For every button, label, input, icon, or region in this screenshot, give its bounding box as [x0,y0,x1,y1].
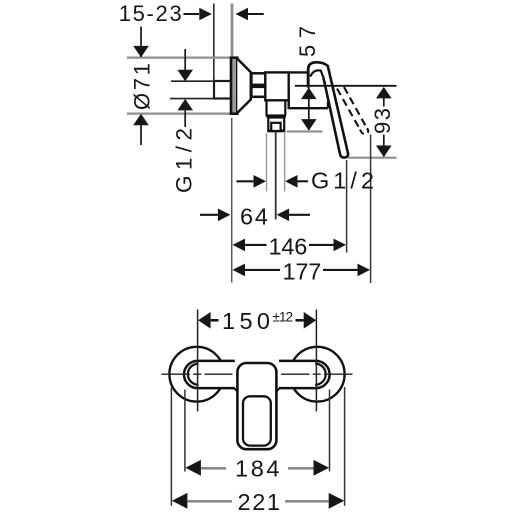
extension line outlet left [266,133,268,192]
arrow left (177) [233,264,246,277]
dimension 150 tail left [211,319,219,322]
arrow left (150) [198,312,211,329]
arrow left (15-23) [236,8,249,21]
arrow right (177) [358,264,371,277]
arrow up (O71 bottom) [133,114,149,126]
dimension 184 line left [201,467,226,470]
right centerline horizontal [281,373,353,375]
wire tail right (G1/2) [298,180,309,182]
svg-text:±12: ±12 [273,310,294,325]
extension line from solid handle tip [346,160,348,253]
dimension 93 line upper [383,88,385,107]
arrow down (G1/2 left) [177,70,193,82]
arrow left (184) [185,460,201,476]
wire tail of left arrow [248,13,264,15]
handle open position dashed edge 2 [344,87,367,128]
wall face line (gray) [231,4,234,58]
extension line from dashed handle tip [370,135,372,284]
arrow up (93) [376,87,392,99]
dimension 221 line right [285,500,329,503]
outlet section left [265,100,267,115]
arrow left (G1/2) [285,175,298,188]
dimension 150 tail right [296,319,304,322]
arrow right (64) [218,209,231,222]
svg-text:Ø71: Ø71 [130,63,155,110]
housing right edge [327,102,329,109]
lever handle outline [308,62,348,157]
bar inner arc left [188,364,199,385]
handle open position dashed tip [360,128,368,134]
outlet bore [271,123,280,131]
left centerline vertical [197,310,199,412]
dimension G1/2 right row tail left [237,180,254,182]
dimension O71 upper tail [140,27,142,58]
arrow down (93) [376,146,392,158]
svg-text:G1/2: G1/2 [311,168,374,194]
lever handle fill [308,64,348,158]
dimension 221 line left [187,500,232,503]
wall inner line [213,4,215,83]
left centerline horizontal [162,373,233,375]
dimension 146 line right [309,244,334,246]
arrow right (221) [329,493,345,509]
dimension 93 line lower [383,135,385,157]
dimension 184 line right [288,467,314,470]
arrow right (150) [304,312,317,329]
outlet nipple bottom edge [268,129,285,132]
union nut [251,73,265,97]
svg-text:G1/2: G1/2 [172,128,197,193]
dimension 177 line right [323,269,358,271]
dimension G1/2 left lower tail [184,111,186,128]
right centerline vertical [315,310,317,412]
body top line to handle [289,71,308,73]
outlet centerline [275,132,277,220]
svg-text:184: 184 [235,456,280,482]
dimension 64 tail right [289,214,310,216]
arrow left (64) [277,209,290,222]
wall extension line lower [231,118,233,283]
arrow up (G1/2 left) [177,99,193,111]
arrow right (146) [334,239,347,252]
arrow right (15-23) [199,8,212,21]
dimension 146 line left [245,244,267,246]
fillet left of handle [233,388,238,393]
dimension 64 tail left [200,214,218,216]
wire leader to 15-23 arrow [184,13,200,15]
handle open position dashed edge 1 [337,89,360,130]
svg-text:146: 146 [269,233,308,259]
extension line nipple top [171,80,214,82]
outlet nipple [268,118,284,132]
handle head inner contour [310,70,323,77]
arrow left (146) [233,239,246,252]
arrow left (221) [172,493,188,509]
svg-text:64: 64 [240,203,268,229]
svg-text:93: 93 [370,108,395,134]
bar inner arc right [315,364,326,385]
svg-text:15-23: 15-23 [119,1,182,26]
right escutcheon circle [290,347,345,402]
mixer body bar [184,361,330,388]
extension line circle left [170,387,172,506]
handle front fill [237,363,276,449]
dimension 57 line [308,64,310,130]
reference line A (top of handle travel) [295,85,397,87]
outlet section right [284,100,286,115]
handle front mask over bar [235,357,279,392]
extension line bar right [329,390,331,472]
outlet bottom reference line [287,130,323,132]
valve body [265,72,288,100]
svg-text:177: 177 [283,258,322,284]
arrow right (G1/2) [254,175,267,188]
handle grip inner [243,396,271,445]
outlet shoulder band [266,114,286,117]
dimension O71 lower tail [140,125,142,145]
left escutcheon circle [169,347,224,402]
handle tip reference line B [348,157,397,159]
fillet right of handle [276,388,281,393]
arrow up (57) [301,88,317,100]
svg-text:221: 221 [238,489,281,515]
extension line outlet right [284,133,286,192]
extension line nipple bottom [170,98,214,100]
arrow down (57) [301,119,317,131]
extension line bar left [184,390,186,472]
arrow right (184) [314,460,330,476]
body right edge lower [288,100,290,109]
extension line circle right [344,387,346,506]
dimension G1/2 left upper tail [184,49,186,80]
svg-text:150: 150 [222,308,270,334]
escutcheon cone [237,59,251,113]
dimension 177 line left [245,269,280,271]
extension line bottom of escutcheon [127,112,233,114]
nut band middle [252,84,265,89]
extension line top of escutcheon [127,56,233,58]
housing bottom line [289,107,328,109]
escutcheon face plate [231,58,237,114]
supply nipple in wall [214,81,232,99]
arrow down (O71 top) [133,46,149,58]
